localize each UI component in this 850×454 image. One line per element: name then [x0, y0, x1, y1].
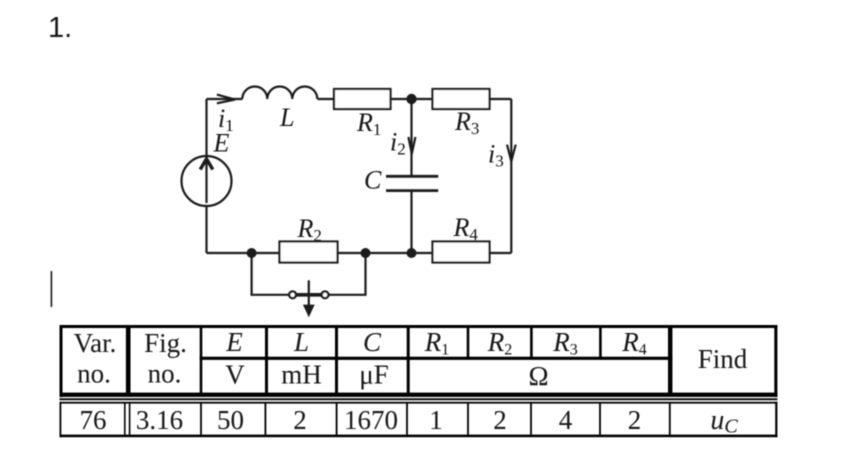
svg-text:i2: i2: [390, 128, 406, 159]
svg-text:V: V: [225, 360, 245, 390]
svg-text:mH: mH: [281, 360, 322, 390]
svg-text:R3: R3: [454, 107, 479, 138]
svg-text:uC: uC: [710, 405, 738, 438]
svg-text:R2: R2: [487, 327, 513, 359]
svg-text:3.16: 3.16: [136, 405, 183, 435]
svg-text:76: 76: [80, 405, 107, 435]
svg-text:Find: Find: [698, 344, 748, 374]
svg-text:C: C: [363, 327, 382, 357]
svg-text:1.: 1.: [48, 12, 72, 44]
svg-text:no.: no.: [148, 359, 182, 389]
svg-text:1: 1: [429, 405, 443, 435]
svg-text:R4: R4: [453, 213, 479, 244]
svg-text:2: 2: [293, 405, 307, 435]
svg-text:R3: R3: [552, 327, 578, 359]
svg-text:E: E: [213, 129, 230, 158]
svg-text:4: 4: [559, 405, 573, 435]
svg-text:L: L: [293, 327, 309, 357]
svg-text:E: E: [225, 327, 243, 357]
svg-text:1670: 1670: [344, 405, 398, 435]
svg-text:i3: i3: [488, 140, 504, 171]
svg-text:C: C: [364, 166, 382, 195]
svg-text:Fig.: Fig.: [144, 328, 187, 358]
svg-text:μF: μF: [359, 360, 389, 390]
svg-text:no.: no.: [77, 359, 111, 389]
svg-text:50: 50: [217, 405, 244, 435]
svg-text:R4: R4: [621, 327, 647, 359]
svg-text:2: 2: [628, 405, 642, 435]
svg-text:L: L: [279, 103, 294, 132]
svg-text:R1: R1: [424, 327, 450, 359]
svg-text:2: 2: [493, 405, 507, 435]
svg-text:Var.: Var.: [74, 328, 117, 358]
svg-text:R1: R1: [356, 108, 381, 139]
svg-text:R2: R2: [297, 214, 322, 245]
svg-text:Ω: Ω: [528, 361, 548, 391]
